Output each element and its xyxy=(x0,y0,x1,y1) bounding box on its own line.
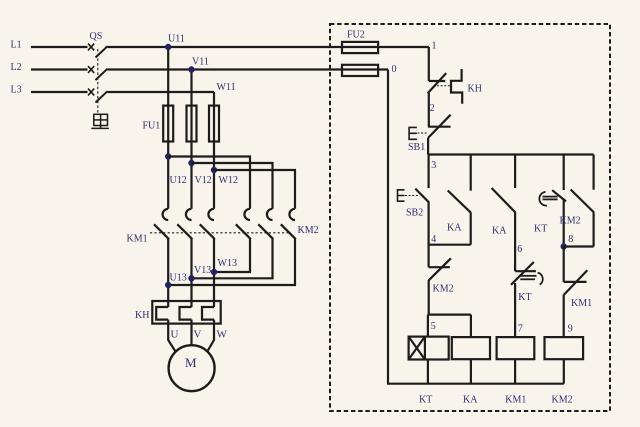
coil KA xyxy=(452,337,490,359)
svg-text:7: 7 xyxy=(518,323,523,334)
thermal relay KH element 2 xyxy=(180,307,192,320)
fuse FU2-1 xyxy=(342,42,378,53)
svg-text:KM2: KM2 xyxy=(552,394,573,405)
svg-text:U11: U11 xyxy=(168,33,185,44)
svg-text:QS: QS xyxy=(90,31,103,42)
contactor KM1 main contact 3 xyxy=(200,209,215,239)
svg-text:V11: V11 xyxy=(192,56,209,67)
pushbutton SB1 NC xyxy=(409,115,451,140)
wire W12 row to KM2 contact 3 xyxy=(214,170,295,209)
thermal relay KH element 3 xyxy=(202,307,214,320)
wire V11 phase vertical through FU1 xyxy=(190,70,192,209)
svg-text:M: M xyxy=(185,355,197,370)
svg-text:KT: KT xyxy=(518,292,531,303)
wire coil KM1 bottom xyxy=(514,359,516,384)
node W13 xyxy=(211,269,217,275)
svg-text:FU1: FU1 xyxy=(143,121,161,132)
svg-text:KM2: KM2 xyxy=(560,215,581,226)
svg-text:2: 2 xyxy=(430,103,435,114)
wire KM2 contact1 return to W13 xyxy=(214,239,250,272)
svg-text:KM2: KM2 xyxy=(433,283,454,294)
pushbutton SB2 NO xyxy=(398,155,429,268)
node U12 xyxy=(165,153,171,159)
svg-text:KM1: KM1 xyxy=(505,394,526,405)
fuse FU1-1 xyxy=(163,106,173,142)
wire KM2 contact3 return to U13 xyxy=(168,239,295,285)
contactor KM1 main contact 1 xyxy=(154,209,169,239)
wire L3 incoming xyxy=(31,91,88,93)
contactor KM2 main contact 2 xyxy=(258,209,273,239)
control box dashed border xyxy=(330,24,610,411)
svg-text:V: V xyxy=(194,329,202,341)
wire V to motor xyxy=(190,320,192,346)
wire U to motor xyxy=(168,320,176,353)
thermal element symbol KH xyxy=(451,69,462,104)
svg-text:U13: U13 xyxy=(170,273,187,284)
svg-text:0: 0 xyxy=(392,64,397,75)
wire U11 phase vertical through FU1 xyxy=(167,47,169,209)
contact KA NO branch 2 xyxy=(492,155,516,272)
svg-text:W: W xyxy=(217,329,228,341)
wire W11 phase vertical through FU1 xyxy=(213,92,215,209)
svg-text:KT: KT xyxy=(534,223,547,234)
svg-text:W12: W12 xyxy=(219,175,238,186)
svg-text:KM1: KM1 xyxy=(127,234,148,245)
node V12 xyxy=(188,160,194,166)
svg-text:9: 9 xyxy=(568,323,573,334)
fuse FU1-2 xyxy=(187,106,197,142)
wire U phase lower vertical xyxy=(167,239,169,307)
wire node 5 row xyxy=(428,315,471,338)
contact KM1 NC interlock xyxy=(564,247,588,338)
wire node 1 corner down xyxy=(428,47,430,81)
node U11 xyxy=(165,44,171,50)
wire V phase lower vertical xyxy=(190,239,192,307)
contactor KM2 main contact 3 xyxy=(281,209,296,239)
switch QS operator box xyxy=(91,114,109,128)
wire to bus 3 xyxy=(427,138,429,155)
svg-text:W11: W11 xyxy=(217,82,236,93)
coil KM1 xyxy=(497,337,535,359)
wire W to motor xyxy=(207,320,214,353)
node U13 xyxy=(165,282,171,288)
wire U12 row to KM2 contact 1 xyxy=(168,157,250,209)
svg-text:U: U xyxy=(171,329,179,341)
switch QS pole 1 xyxy=(88,44,108,58)
wire L2 incoming xyxy=(31,68,88,70)
wire L1 incoming xyxy=(31,46,88,48)
svg-text:U12: U12 xyxy=(170,175,187,186)
svg-text:L1: L1 xyxy=(11,40,22,51)
svg-text:4: 4 xyxy=(431,234,436,245)
wire L3 to fuse 3 xyxy=(108,91,215,93)
wire bus node 3 xyxy=(428,153,593,155)
switch QS pole 2 xyxy=(88,66,108,80)
contact KH NC (control) xyxy=(428,73,447,93)
svg-text:KH: KH xyxy=(468,84,482,95)
linkage dashed KM1 KM2 xyxy=(150,232,289,234)
svg-text:3: 3 xyxy=(431,160,436,171)
svg-text:KA: KA xyxy=(447,223,462,234)
node V11 xyxy=(188,66,194,72)
wire W phase lower vertical xyxy=(213,239,215,307)
coil KM2 xyxy=(545,337,584,359)
svg-text:1: 1 xyxy=(432,41,437,52)
wire coil KM2 bottom xyxy=(563,359,565,384)
wire L1 to control box xyxy=(108,46,429,48)
fuse FU1-3 xyxy=(209,106,219,142)
coil KT xyxy=(409,337,449,360)
svg-text:KT: KT xyxy=(419,394,432,405)
contact KT NO delayed-close xyxy=(539,155,566,247)
svg-text:KH: KH xyxy=(135,310,149,321)
node W12 xyxy=(211,167,217,173)
wire node 2 xyxy=(428,93,430,127)
fuse FU2-2 xyxy=(342,65,378,76)
svg-text:KM1: KM1 xyxy=(571,298,592,309)
CONTROL CIRCUIT xyxy=(330,24,610,411)
contact KM2 NO self-hold xyxy=(571,155,594,247)
svg-text:SB1: SB1 xyxy=(408,142,425,153)
wire rail 0 left xyxy=(388,70,564,384)
svg-text:SB2: SB2 xyxy=(406,207,423,218)
svg-text:KA: KA xyxy=(492,225,507,236)
switch QS pole 3 xyxy=(88,89,108,103)
contact KT NC delayed-open xyxy=(511,262,543,337)
switch QS linkage dashed xyxy=(97,49,99,114)
svg-text:8: 8 xyxy=(568,234,573,245)
node V13 xyxy=(188,275,194,281)
contact KA NO self-hold xyxy=(448,155,471,245)
svg-text:V12: V12 xyxy=(195,175,212,186)
svg-text:5: 5 xyxy=(431,321,436,332)
svg-text:KM2: KM2 xyxy=(298,225,319,236)
svg-text:L3: L3 xyxy=(11,85,22,96)
thermal relay KH element 1 xyxy=(156,307,168,320)
wire KM2 contact2 return to V13 xyxy=(192,239,273,278)
svg-text:V13: V13 xyxy=(194,265,211,276)
contactor KM2 main contact 1 xyxy=(236,209,251,239)
contact KM2 NC interlock xyxy=(429,258,451,314)
svg-text:FU2: FU2 xyxy=(347,30,365,41)
link dashed KH xyxy=(437,85,450,87)
contactor KM1 main contact 2 xyxy=(177,209,192,239)
node 8 xyxy=(561,243,567,249)
wire node 8 join xyxy=(564,245,594,247)
svg-text:6: 6 xyxy=(517,244,522,255)
wire node 4 join xyxy=(429,244,471,246)
wire coil KT bottom xyxy=(427,360,429,384)
thermal relay KH box xyxy=(152,301,220,324)
motor M circle xyxy=(169,345,215,391)
svg-text:KA: KA xyxy=(463,394,478,405)
wire L2 to control box xyxy=(108,68,389,70)
wire V12 row to KM2 contact 2 xyxy=(192,163,273,209)
svg-text:L2: L2 xyxy=(11,62,22,73)
wire coil KA bottom xyxy=(470,359,472,384)
svg-text:W13: W13 xyxy=(218,258,237,269)
